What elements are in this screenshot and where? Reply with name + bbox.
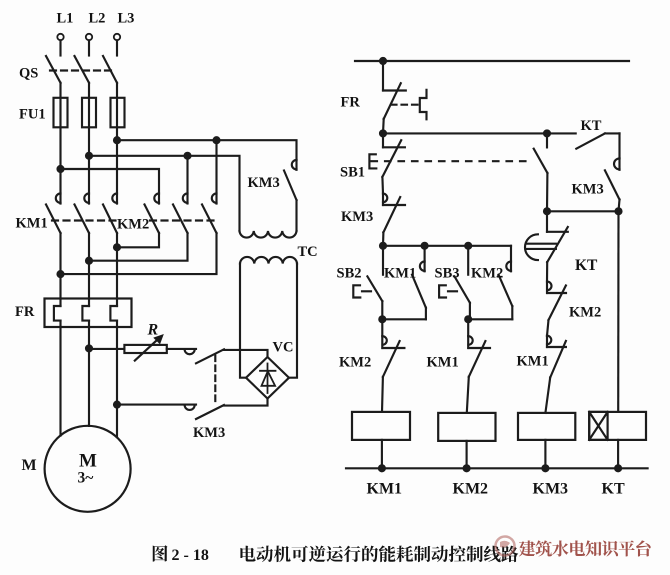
svg-text:R: R bbox=[147, 322, 159, 339]
thermal relay FR box bbox=[45, 299, 132, 328]
rectifier VC diode bbox=[260, 364, 276, 394]
wire TC secondary left to VC bbox=[240, 264, 246, 378]
coil KM2 bbox=[438, 413, 495, 441]
transformer TC secondary winding bbox=[240, 257, 297, 264]
FR heater symbol bbox=[420, 90, 427, 120]
contactor KM1 aux NO contact bbox=[412, 246, 426, 319]
control top rail bbox=[355, 60, 629, 62]
relay KT delayed contact bbox=[547, 211, 568, 281]
svg-text:KM2: KM2 bbox=[117, 217, 149, 233]
node KM3 rail bbox=[542, 465, 548, 471]
node KM2 rail bbox=[464, 465, 470, 471]
node brake branch left bbox=[544, 208, 550, 214]
watermark text bbox=[519, 540, 651, 556]
node W to brake junction bbox=[114, 402, 120, 408]
FR linkage dashed bbox=[391, 104, 418, 106]
svg-text:KT: KT bbox=[581, 118, 602, 134]
KT delay symbol bbox=[525, 234, 556, 260]
svg-text:FR: FR bbox=[341, 95, 361, 111]
node L3 feed junction bbox=[114, 137, 120, 143]
node branch rail 3 bbox=[465, 243, 471, 249]
svg-text:L3: L3 bbox=[118, 11, 135, 27]
svg-text:L2: L2 bbox=[89, 11, 106, 27]
resistor R arrow bbox=[135, 335, 163, 361]
wire L2 column QS to KM1 bbox=[88, 83, 90, 204]
node V to resistor junction bbox=[86, 345, 92, 351]
pushbutton SB2 NO contact bbox=[367, 246, 383, 319]
svg-text:KM1: KM1 bbox=[427, 355, 459, 371]
svg-text:KM3: KM3 bbox=[341, 209, 373, 225]
node brake branch right bbox=[616, 208, 622, 214]
node L2 feed junction bbox=[86, 153, 92, 159]
SB1 linkage dashed bbox=[372, 160, 534, 162]
wire KM2 pole3 bottom to U column bbox=[61, 233, 217, 274]
svg-text:KM2: KM2 bbox=[569, 305, 601, 321]
coil KT bbox=[589, 412, 646, 440]
svg-text:VC: VC bbox=[273, 340, 294, 356]
pushbutton SB1 NC contact bbox=[382, 133, 405, 193]
svg-text:TC: TC bbox=[298, 244, 318, 260]
contactor KM1 brake NC contact bbox=[545, 336, 566, 413]
resistor R bbox=[124, 345, 166, 353]
KM3 brake contact lower bbox=[185, 405, 224, 419]
wire L1 column QS to KM1 bbox=[59, 83, 61, 204]
svg-text:KM1: KM1 bbox=[16, 216, 48, 232]
svg-text:KM1: KM1 bbox=[517, 354, 549, 370]
svg-text:KM2: KM2 bbox=[339, 355, 371, 371]
wire SB3 KM2 join bbox=[468, 318, 512, 320]
coil KM1 bbox=[352, 412, 410, 440]
wire W column FR to motor bbox=[116, 327, 118, 437]
terminal L1 bbox=[57, 34, 63, 56]
watermark logo bbox=[496, 537, 515, 556]
node branch rail 1 bbox=[380, 243, 386, 249]
FR heater element 1 bbox=[54, 299, 61, 328]
wire V to resistor R bbox=[89, 348, 124, 350]
svg-text:3~: 3~ bbox=[78, 470, 94, 487]
svg-text:FR: FR bbox=[15, 304, 35, 320]
node KM1 rail bbox=[379, 465, 385, 471]
wire KM3 lower to rectifier bbox=[224, 399, 268, 406]
contactor KM2 pole 2 bbox=[173, 194, 188, 234]
rectifier VC bridge bbox=[246, 357, 289, 399]
SB2 actuator bbox=[353, 285, 371, 297]
switch QS linkage dashed bbox=[50, 69, 112, 71]
FR NC contact bbox=[383, 61, 406, 133]
svg-text:KM3: KM3 bbox=[193, 425, 225, 441]
fuse FU1 pole 1 bbox=[54, 98, 68, 128]
svg-text:KM3: KM3 bbox=[572, 182, 604, 198]
svg-text:KM2: KM2 bbox=[471, 266, 503, 282]
fuse FU1 pole 2 bbox=[82, 98, 96, 128]
contactor KM3 self-hold contact bbox=[383, 194, 405, 246]
contactor KM2 pole 3 bbox=[202, 194, 217, 234]
wire L3 column QS to KM1 bbox=[116, 83, 118, 204]
pushbutton SB3 NO contact bbox=[455, 246, 470, 319]
node U junction bbox=[58, 271, 64, 277]
fuse FU1 pole 3 bbox=[111, 98, 125, 128]
control second rail bbox=[383, 132, 576, 134]
svg-text:KT: KT bbox=[575, 257, 598, 274]
svg-text:KM3: KM3 bbox=[533, 481, 569, 498]
contactor KM1 interlock NC contact bbox=[467, 319, 490, 413]
wire TC secondary right to VC bbox=[289, 264, 297, 378]
wire brake node bbox=[547, 210, 619, 212]
wire KM1 coil to rail bbox=[381, 440, 383, 468]
wire L2 to transformer TC bbox=[89, 156, 240, 231]
wire KM2 pole1 bottom to W column bbox=[117, 233, 159, 247]
SB3 actuator bbox=[439, 285, 457, 297]
wire KT coil to rail bbox=[617, 440, 619, 468]
wire L3 to KM3 main contact bbox=[117, 140, 297, 160]
svg-text:KM1: KM1 bbox=[384, 266, 416, 282]
contactor KM2 aux NO contact bbox=[499, 246, 513, 319]
node KT rail bbox=[615, 465, 621, 471]
contactor KM3 main contact bbox=[284, 160, 297, 231]
wire U column KM1 to FR bbox=[59, 233, 61, 299]
svg-text:SB1: SB1 bbox=[340, 165, 365, 181]
node SB2 KM1 join bbox=[379, 316, 385, 322]
transformer TC primary winding bbox=[240, 231, 297, 238]
wire U column FR to motor bbox=[59, 327, 61, 436]
contactor KM1 pole 1 bbox=[46, 194, 61, 234]
KM1 KM2 linkage dashed bbox=[52, 219, 214, 221]
wire right branch down bbox=[617, 211, 619, 412]
svg-text:FU1: FU1 bbox=[19, 107, 46, 123]
wire R to KM3 brake contact bbox=[167, 348, 196, 350]
node second rail left junction bbox=[380, 130, 386, 136]
switch QS pole 2 blade bbox=[75, 56, 90, 83]
node SB3 KM2 join bbox=[465, 316, 471, 322]
FR heater element 3 bbox=[110, 299, 117, 328]
svg-text:L1: L1 bbox=[57, 11, 74, 27]
contactor KM3 aux NO contact bbox=[605, 158, 620, 211]
relay KT NC contact top bbox=[576, 133, 619, 158]
control branch rail bbox=[383, 245, 511, 247]
wire W to KM3 brake contact lower bbox=[117, 404, 196, 406]
wire feed KM2 pole 1 bbox=[61, 169, 160, 204]
svg-text:KM3: KM3 bbox=[248, 175, 280, 191]
coil KM3 bbox=[518, 413, 575, 440]
wire V column KM1 to FR bbox=[88, 233, 90, 299]
switch QS pole 1 blade bbox=[46, 56, 61, 83]
node branch rail 2 bbox=[422, 243, 428, 249]
caption figure number bbox=[153, 545, 209, 564]
wire KM3 coil to rail bbox=[544, 440, 546, 468]
switch QS pole 3 blade bbox=[103, 56, 117, 83]
wire feed KM2 pole 3 bbox=[215, 140, 217, 203]
wire feed KM2 pole 2 bbox=[186, 156, 188, 204]
contactor KM1 pole 2 bbox=[75, 194, 90, 234]
motor M circle bbox=[45, 426, 131, 512]
wire V column FR to motor bbox=[88, 327, 90, 426]
node V junction bbox=[86, 258, 92, 264]
contactor KM2 interlock NC contact bbox=[382, 319, 404, 412]
svg-text:2 - 18: 2 - 18 bbox=[172, 547, 209, 564]
control bottom rail bbox=[346, 467, 648, 469]
KM3 brake contact upper bbox=[185, 349, 224, 363]
node KM2 pole2 feed junction bbox=[185, 153, 191, 159]
contactor KM2 pole 1 bbox=[145, 194, 160, 234]
caption title bbox=[240, 545, 518, 562]
FR heater element 2 bbox=[82, 299, 89, 328]
svg-text:SB2: SB2 bbox=[337, 266, 362, 282]
contactor KM2 brake NC contact bbox=[547, 282, 566, 336]
wire SB2 KM1 join bbox=[382, 318, 426, 320]
SB1 actuator bbox=[369, 154, 376, 168]
svg-text:KM1: KM1 bbox=[367, 481, 403, 498]
KM3 brake linkage dashed bbox=[214, 356, 216, 404]
contactor KM1 pole 3 bbox=[103, 194, 117, 234]
terminal L2 bbox=[86, 34, 92, 56]
terminal L3 bbox=[114, 34, 120, 56]
svg-text:KM2: KM2 bbox=[453, 481, 489, 498]
node KM2 pole3 feed junction bbox=[214, 137, 220, 143]
wire KM2 coil to rail bbox=[466, 441, 468, 468]
wire KM3 upper to rectifier bbox=[224, 350, 268, 357]
svg-text:KT: KT bbox=[602, 481, 625, 498]
svg-text:M: M bbox=[79, 451, 97, 472]
svg-text:M: M bbox=[22, 457, 37, 474]
wire W column KM1 to FR bbox=[116, 233, 118, 299]
wire KM2 pole2 bottom to V column bbox=[89, 233, 188, 261]
node L1 feed junction bbox=[58, 166, 64, 172]
node control main junction bbox=[380, 58, 386, 64]
svg-text:SB3: SB3 bbox=[435, 266, 460, 282]
pushbutton SB1 NO contact bbox=[534, 133, 548, 211]
node second rail right junction bbox=[544, 130, 550, 136]
node W junction bbox=[114, 244, 120, 250]
svg-text:QS: QS bbox=[19, 66, 38, 82]
